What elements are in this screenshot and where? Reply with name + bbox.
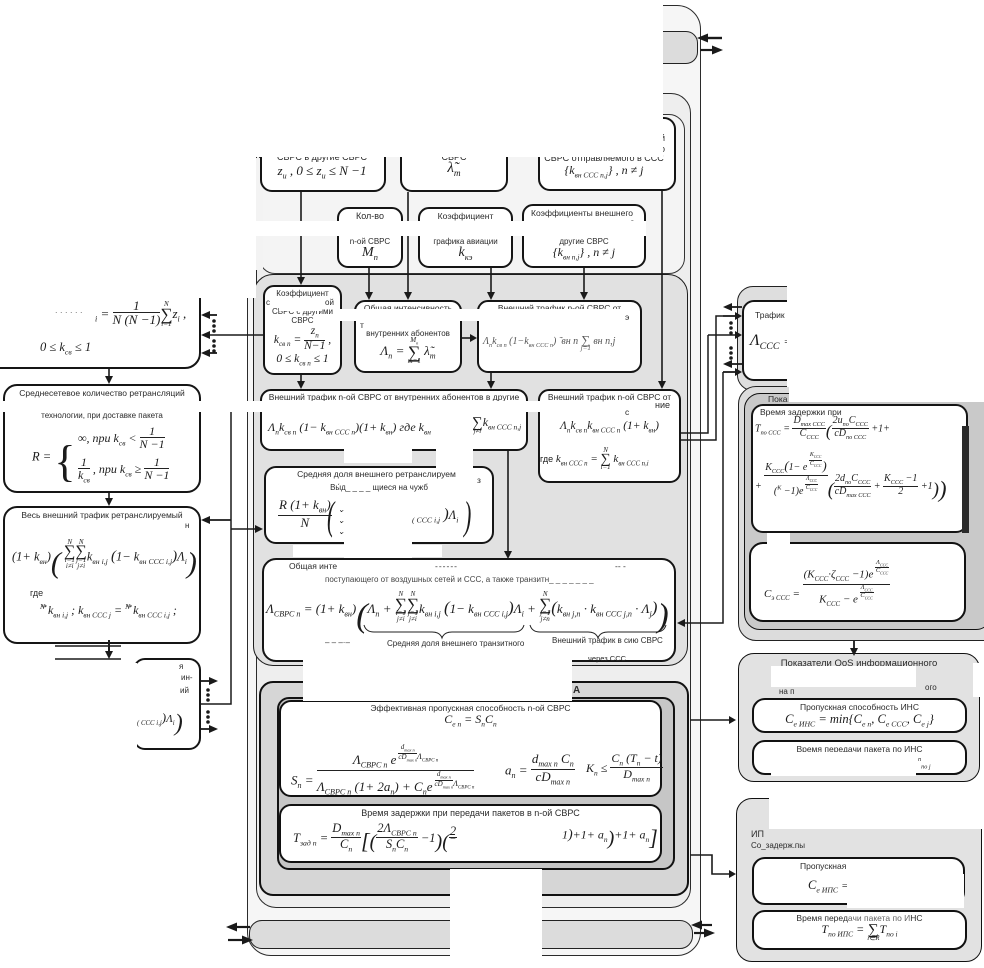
container G <box>736 798 982 962</box>
tab arrows <box>697 34 722 43</box>
row2 box1 text <box>337 211 403 221</box>
bottom bar <box>249 920 693 949</box>
arrow row1b1 to row3b1 <box>297 192 305 285</box>
container D <box>737 286 907 391</box>
F1 box <box>752 698 967 733</box>
arrow row3b3 to row4A <box>487 373 495 389</box>
arrow L2 down to L3 <box>105 493 113 506</box>
E2 box <box>749 542 966 622</box>
row1 box2 <box>400 118 508 192</box>
arrows into L1 right edge <box>201 311 217 319</box>
D left side arrows <box>723 303 742 311</box>
E caption <box>768 394 787 404</box>
container F <box>738 653 980 782</box>
big lambda box <box>262 558 676 662</box>
row3 box2 text <box>354 303 462 313</box>
G1b text <box>800 861 846 871</box>
L2 text <box>3 388 201 398</box>
row1 box3 text <box>660 133 665 143</box>
W1 box <box>279 700 662 797</box>
row5 box <box>264 466 494 544</box>
F captions <box>738 658 980 669</box>
wire from D down into lambda box <box>677 372 723 627</box>
box L2 <box>3 384 201 493</box>
F2 text <box>752 744 967 754</box>
arrow into row5 box <box>231 525 263 533</box>
W2 box text <box>279 808 662 818</box>
row3 box1 text <box>263 289 342 298</box>
box L4 <box>133 658 201 750</box>
F1 text <box>752 702 967 712</box>
row3 box2 <box>354 300 462 373</box>
L4 corner connector and vertical x231 <box>201 407 231 704</box>
arrow into G <box>690 855 736 878</box>
row1 box1 text <box>258 152 386 162</box>
F2 box <box>752 740 967 775</box>
arrow L1 down to L2 <box>105 369 113 384</box>
tab B top <box>648 31 698 64</box>
gray container G3 <box>277 697 675 870</box>
arrow E to F <box>850 641 858 656</box>
G3 caption fragment <box>573 685 580 696</box>
row4 boxB text <box>538 392 681 402</box>
arrow row4A to lambda box <box>504 451 512 559</box>
L4 right arrows <box>201 677 218 685</box>
W2 box <box>279 804 662 863</box>
arrow Mn to row3b2 <box>365 268 373 300</box>
box L1 <box>0 252 201 369</box>
bottom bar left arrows <box>226 923 250 932</box>
row1 box3 <box>538 117 676 191</box>
G2b box <box>752 910 967 950</box>
row2 box3 text <box>522 208 642 218</box>
E1 box <box>751 404 968 533</box>
row2 box2 <box>418 207 513 268</box>
row4 boxB <box>538 389 681 483</box>
box L3 <box>3 506 201 644</box>
arrow into L3 <box>201 516 231 524</box>
row3 box3 text <box>477 303 642 313</box>
row2 box1 <box>337 207 403 268</box>
inputs container I2 <box>259 114 685 274</box>
D1 text <box>755 310 785 320</box>
row3 box3 <box>477 300 642 373</box>
L3 text <box>3 510 201 520</box>
L4 text <box>179 662 183 671</box>
E2 text <box>764 560 890 609</box>
arrow row2b3 to row3b3 <box>580 268 588 300</box>
D1 box <box>742 300 882 381</box>
G2b text <box>752 913 967 923</box>
arrow into F <box>690 716 736 724</box>
inner container I1 <box>256 93 691 908</box>
row3 box1 <box>263 285 342 375</box>
arrow row1b2 lambda down to row3b2 <box>404 192 412 300</box>
arrow row3b2 to row3b3 <box>462 334 477 342</box>
arrow k_ke to row3b3 <box>487 268 495 300</box>
G1b box <box>752 857 965 905</box>
lines below L3 with arrow <box>55 640 121 659</box>
row2 box3 <box>522 204 646 268</box>
row4 boxA <box>260 389 528 451</box>
wires from row4B up to D <box>681 335 708 433</box>
row1 box2 text <box>400 152 508 162</box>
row2 box2 text <box>418 211 513 221</box>
gray container G1 (rows 3-7) <box>253 274 688 666</box>
W1 box text <box>279 703 662 713</box>
row1 box1 <box>260 118 386 192</box>
arrow row3b1 to row4A <box>297 375 305 389</box>
cover of I borders on left (no dark border in target) <box>252 158 263 270</box>
dotted verticals near L1 <box>212 319 216 353</box>
bottom bar right arrows <box>691 921 712 930</box>
container E outer <box>738 386 984 641</box>
row5 box text <box>264 469 489 479</box>
G captions <box>751 829 764 839</box>
row4 boxA text <box>260 392 528 402</box>
lambda box text <box>289 561 337 571</box>
E1 right thick bar <box>962 426 969 533</box>
L1 text <box>55 305 83 315</box>
gray container G2 (bottom formulas) <box>259 681 689 896</box>
E1 text <box>760 407 842 417</box>
outer container O <box>247 5 701 956</box>
arrow row1b3 down to row4B <box>658 191 666 389</box>
container E inner <box>744 393 984 630</box>
